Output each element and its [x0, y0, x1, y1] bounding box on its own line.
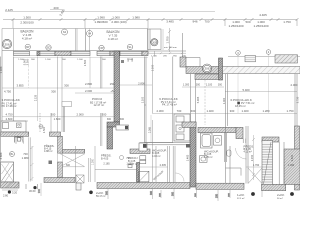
door frame symbol hall [15, 137, 24, 143]
svg-text:4.750: 4.750 [6, 112, 13, 116]
axis line 2 vertical [268, 54, 270, 113]
shaft square center [139, 143, 147, 151]
svg-text:3.485: 3.485 [166, 20, 174, 24]
top wall of right section light (right part) [222, 67, 300, 74]
unit marker B06 double circle [2, 39, 11, 48]
partition wall between units (x≈145) [145, 57, 147, 143]
step outline top right section [148, 33, 200, 67]
door gap threshold [30, 55, 38, 57]
marker circle hall center [120, 156, 124, 160]
svg-text:4.18 m²: 4.18 m² [22, 37, 32, 41]
svg-text:B 4.05: B 4.05 [101, 157, 109, 160]
left exterior wall line [1, 51, 14, 188]
svg-text:900: 900 [38, 188, 41, 193]
entry door area bottom-left [2, 190, 18, 198]
wall jog hatch center [182, 122, 196, 128]
big hatched block bottom right [284, 149, 300, 185]
svg-text:94: 94 [88, 32, 92, 36]
marker circle SL [127, 44, 132, 49]
svg-text:600: 600 [66, 164, 71, 167]
label BALKON (right balcony) [107, 30, 121, 41]
entry door dot (35,187.6) [26, 184, 38, 193]
room label 3.POKOJ+KK [2, 98, 20, 108]
room label POKOJ bottom [128, 156, 138, 166]
marker circle 66 [62, 29, 68, 35]
window W3 [71, 51, 90, 55]
axis bubble 3 [236, 51, 241, 56]
svg-text:1.500: 1.500 [23, 16, 31, 20]
marker circle SD [46, 45, 51, 50]
unit marker B06 double circle (right) [151, 39, 158, 46]
svg-text:1.750: 1.750 [283, 20, 291, 24]
interior partition lines left unit [29, 113, 51, 182]
svg-text:4.11 m²: 4.11 m² [244, 151, 252, 154]
svg-text:56 m²: 56 m² [277, 197, 283, 200]
bath label WC+KOUP left-center [152, 148, 167, 157]
right section top room labels [159, 97, 177, 107]
svg-text:1.760: 1.760 [253, 164, 260, 167]
wall band right mid [262, 137, 279, 142]
room label PREDS center [101, 153, 112, 161]
main party wall dark (lower) [107, 127, 113, 149]
dim texts below window band [18, 59, 133, 61]
svg-text:2.600: 2.600 [0, 152, 3, 159]
vertical dim chain right corridor [252, 135, 255, 180]
room outline center unit [145, 57, 173, 143]
wall lines right of shaft [279, 142, 284, 184]
svg-text:4.405: 4.405 [259, 13, 267, 17]
svg-text:5.005: 5.005 [196, 96, 200, 103]
svg-text:300: 300 [64, 84, 69, 88]
dim text labels below row2 [20, 20, 269, 28]
svg-text:946: 946 [192, 20, 197, 24]
marker circle 94 [87, 31, 93, 37]
wall segment hatched [110, 51, 120, 55]
diagonal door swing bottom right room [248, 168, 262, 184]
bottom-left wall band [1, 182, 19, 188]
svg-text:700: 700 [204, 20, 209, 24]
lower wall block near circle [195, 74, 222, 80]
svg-text:30.60: 30.60 [29, 189, 36, 193]
vertical dim chain left hall [31, 146, 34, 181]
room label PREDSIN left [44, 143, 55, 153]
svg-text:200: 200 [53, 6, 58, 10]
corridor lines center [76, 146, 137, 182]
window bottom small [76, 183, 81, 190]
svg-text:3.750: 3.750 [296, 96, 300, 103]
svg-text:5.25 m²: 5.25 m² [204, 156, 213, 159]
svg-text:1.750: 1.750 [287, 109, 294, 113]
svg-text:306: 306 [205, 67, 210, 71]
washing machine box [76, 175, 84, 183]
small pier square [49, 161, 53, 165]
svg-text:2.300 (100): 2.300 (100) [111, 20, 126, 24]
svg-text:300: 300 [107, 118, 112, 121]
interior partition x37.5 [37, 57, 39, 122]
shaft symbol next to wall [116, 125, 129, 130]
room outline bottom right [226, 126, 249, 184]
svg-text:1.465: 1.465 [186, 154, 190, 161]
svg-text:1.600: 1.600 [54, 117, 61, 121]
right exterior wall lines [226, 74, 298, 126]
svg-text:4.03 m²: 4.03 m² [152, 155, 161, 158]
svg-text:PK 17.28 m²: PK 17.28 m² [2, 104, 17, 108]
dashed centerline left room [28, 65, 30, 88]
washbasin right [214, 136, 222, 145]
vertical wall center-left [58, 136, 63, 153]
svg-text:12.47 m²: 12.47 m² [94, 103, 105, 107]
svg-text:2.125: 2.125 [5, 8, 13, 12]
svg-text:1.460: 1.460 [288, 164, 295, 167]
svg-text:300: 300 [171, 191, 174, 196]
bath top wall lines [140, 143, 191, 145]
svg-text:1.400: 1.400 [242, 109, 249, 113]
washbasin + wc center [140, 156, 146, 164]
window symbol top right 1 [245, 56, 256, 62]
texts 2.600/1.600 row y=116 left [6, 117, 61, 121]
vertical dim chain x=41 [38, 183, 41, 196]
svg-text:2.400: 2.400 [290, 154, 294, 161]
svg-text:3.20: 3.20 [12, 191, 18, 195]
hall dim texts [22, 152, 29, 160]
svg-text:2.150: 2.150 [251, 154, 254, 161]
svg-text:1.980: 1.980 [22, 156, 29, 160]
dim line top row 1 [5, 10, 215, 12]
window symbol top right 2 (hatched) [275, 55, 298, 63]
small dark tick right of wall top [121, 60, 124, 63]
svg-text:1.100: 1.100 [206, 84, 213, 87]
unit dot 2+KK right [277, 192, 294, 200]
wc right [200, 156, 208, 163]
horizontal line left section mid (y=121) [2, 120, 28, 122]
unit dot 1+KK right [237, 192, 255, 200]
unit dot 2+KK center [89, 191, 105, 199]
svg-text:300: 300 [196, 84, 201, 87]
partition wall PREDS/POKOJ center [89, 158, 91, 182]
kitchen wall hatched band [1, 132, 29, 136]
svg-text:1.500: 1.500 [43, 126, 46, 133]
partition line x90 [89, 57, 91, 89]
dim line right section y=113 [152, 113, 297, 115]
vertical dims between balconies [86, 29, 90, 51]
upper thin wall above x=190 [191, 74, 196, 122]
svg-text:1.700: 1.700 [166, 36, 170, 43]
vertical dim chain 1.700 [168, 28, 171, 52]
svg-text:32.5 m²: 32.5 m² [237, 197, 245, 200]
dark vertical wall center (x≈190-196) [190, 122, 196, 187]
vertical hatched wall left end of top band [180, 57, 186, 67]
svg-text:1.500: 1.500 [77, 59, 83, 61]
small shaft right of wall [62, 102, 72, 107]
svg-text:300: 300 [218, 84, 223, 87]
svg-text:300: 300 [120, 118, 125, 121]
svg-text:250: 250 [215, 193, 218, 198]
svg-text:4.750: 4.750 [4, 90, 11, 94]
svg-text:2.000: 2.000 [77, 112, 84, 116]
dim ticks row2 [12, 18, 299, 21]
svg-text:SD: SD [47, 46, 51, 50]
svg-text:600: 600 [191, 109, 196, 113]
svg-text:18.45 m²: 18.45 m² [235, 104, 246, 108]
svg-text:306: 306 [4, 42, 9, 46]
svg-text:3.855: 3.855 [17, 84, 24, 88]
svg-text:700: 700 [23, 152, 28, 156]
wall segment hatched [55, 51, 71, 55]
unit marker B06 double circle (far right section) [203, 64, 212, 73]
svg-text:2.80: 2.80 [3, 194, 9, 198]
svg-text:56.17 m²: 56.17 m² [96, 195, 106, 198]
corner shaft with X hatch [1, 162, 14, 182]
window W1 [14, 51, 30, 55]
svg-text:SL: SL [128, 45, 132, 49]
dashed column line right [204, 80, 206, 126]
svg-text:2.300: 2.300 [157, 109, 164, 113]
balcony outline left [2, 29, 148, 52]
main party wall dark (upper) [114, 51, 120, 122]
svg-text:300: 300 [150, 190, 153, 195]
wall band right of entry [44, 178, 75, 183]
svg-text:BL: BL [10, 152, 14, 156]
dim line below right balcony [147, 52, 186, 54]
svg-text:2.135: 2.135 [35, 94, 38, 101]
svg-text:2.800: 2.800 [85, 82, 92, 86]
svg-text:1.100: 1.100 [142, 96, 145, 103]
svg-text:1.980: 1.980 [132, 16, 140, 20]
svg-text:1.300: 1.300 [93, 158, 95, 164]
svg-text:NP: NP [100, 46, 104, 50]
shower center [139, 171, 149, 182]
svg-text:2.600: 2.600 [6, 117, 13, 121]
svg-text:300: 300 [102, 112, 107, 116]
party wall jog hatched [107, 122, 120, 127]
svg-text:150: 150 [110, 82, 115, 86]
svg-text:300: 300 [51, 112, 56, 116]
svg-text:3.POKOJ+KK: 3.POKOJ+KK [2, 98, 20, 102]
dim line below window band [14, 56, 149, 58]
svg-text:1.250/1200: 1.250/1200 [253, 24, 268, 28]
door swing X left-center [61, 154, 85, 167]
vertical dim chain living room [150, 115, 152, 142]
right section inner partition lines [153, 51, 157, 182]
vertical dim chain x=152 (right of B06 balcony) [162, 29, 164, 50]
wall band left-center y150 [60, 149, 85, 153]
bottom wall band center [97, 183, 190, 189]
door arc PREDS right [236, 148, 247, 159]
window W5 [120, 51, 142, 55]
top edge of wall band [2, 50, 148, 52]
bath wall band right section [198, 127, 236, 132]
balcony B06 rectangle [148, 29, 162, 50]
axis dim line with bubbles [228, 55, 300, 57]
axis bubble 2 [266, 50, 271, 55]
right exterior wall lower hatched [295, 126, 300, 190]
dim line right section y=89 [182, 87, 297, 92]
svg-text:5.400: 5.400 [243, 88, 250, 92]
svg-text:1.300: 1.300 [0, 66, 3, 73]
svg-text:4.88 m²: 4.88 m² [44, 150, 53, 153]
svg-text:2.300/100: 2.300/100 [20, 20, 34, 24]
marker circle NP [99, 45, 104, 50]
svg-text:64: 64 [63, 30, 67, 34]
corridor walls center unit [168, 146, 175, 183]
svg-text:1.250/1200: 1.250/1200 [228, 24, 243, 28]
dim text labels above row2 [5, 6, 291, 24]
room label 0.POKOJ+HK.K right [231, 98, 255, 108]
svg-text:1.990/600: 1.990/600 [94, 20, 108, 24]
svg-text:4.18 m²: 4.18 m² [108, 37, 118, 41]
interior wall x57.7-62 [58, 57, 62, 133]
dim line row 2 (main chain) [3, 20, 297, 29]
wall lines below corner right [225, 133, 246, 162]
kitchen counter left unit [1, 121, 26, 132]
svg-text:1+KK: 1+KK [237, 193, 244, 197]
label PREDS right [244, 143, 255, 153]
label BALKON (left balcony) [21, 30, 35, 41]
bottom right walls [196, 183, 244, 189]
svg-text:PK 17.41 m²: PK 17.41 m² [162, 103, 177, 107]
bath wall dark L center [137, 163, 140, 183]
svg-text:2.365: 2.365 [148, 126, 151, 133]
marker circle 6P [25, 44, 30, 49]
wc fixture PREDS right [227, 150, 231, 156]
svg-text:1.500: 1.500 [83, 59, 87, 66]
bathtub right [201, 133, 213, 148]
svg-text:1.500: 1.500 [45, 59, 51, 61]
dark pier left of wall [186, 144, 190, 148]
dark vertical wall right of corridor [219, 58, 223, 80]
interior dim line left room [2, 88, 114, 117]
top wall of right section hatched (left part) [186, 67, 222, 74]
svg-text:500: 500 [245, 20, 250, 24]
svg-text:min. 900 mm: min. 900 mm [164, 47, 177, 49]
dim ticks below bottom wall center [105, 189, 174, 200]
kitchen counter center unit [174, 114, 190, 141]
wall block right of kitchen [50, 132, 61, 136]
wall band above POKOJ bottom right [130, 149, 150, 154]
circle marker BL hall [10, 152, 15, 157]
svg-text:3.300: 3.300 [25, 58, 29, 65]
svg-text:2.000: 2.000 [85, 89, 92, 93]
window W4 [97, 51, 110, 55]
svg-text:6P: 6P [26, 45, 30, 49]
svg-text:300: 300 [105, 190, 108, 195]
svg-text:1.280: 1.280 [263, 109, 270, 113]
door arc center corridor [176, 173, 185, 182]
dim line 2.800 center room [120, 84, 152, 86]
window W2 [37, 51, 55, 55]
label WC+KOUP right [204, 149, 219, 158]
wall segment hatched [142, 51, 148, 55]
stair shaft crosshatch right [262, 141, 273, 185]
svg-text:2.165: 2.165 [103, 163, 110, 166]
svg-text:300: 300 [230, 109, 235, 113]
axis line 3 vertical [237, 55, 239, 113]
svg-text:+5: +5 [110, 89, 114, 93]
room label POKOJ (center) [90, 97, 106, 107]
svg-text:306: 306 [152, 41, 157, 44]
svg-text:300: 300 [51, 90, 56, 94]
svg-text:2.305: 2.305 [160, 164, 167, 167]
dim ticks bottom right [159, 190, 262, 201]
door jamb center hall [128, 165, 132, 168]
svg-text:2+KK: 2+KK [277, 193, 284, 197]
svg-text:1.300: 1.300 [183, 84, 190, 87]
svg-text:1.400: 1.400 [207, 109, 214, 113]
door arc kitchen [16, 136, 24, 144]
partition line left section [100, 57, 102, 147]
svg-text:700: 700 [177, 109, 182, 113]
